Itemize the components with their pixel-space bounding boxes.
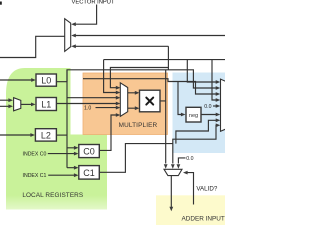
svg-text:1.0: 1.0 [84,106,91,112]
wire L1 output [56,103,116,105]
svg-text:INDEX C0: INDEX C0 [23,151,47,157]
arrows into mux2 (6 inputs) [116,86,121,90]
mux0 small multiplexer [14,98,21,111]
register L2 [35,129,56,141]
svg-text:INDEX C1: INDEX C1 [23,173,47,179]
mux4 bottom mux [164,169,182,175]
wire orange crossing y=78.7 to right mux and neg [83,79,218,115]
register L1 [36,98,56,111]
svg-text:L2: L2 [41,131,51,141]
arrow mux4 output down [169,207,173,212]
arrow into mux1 in2 [71,34,76,38]
wire 0.0 bottom hook [178,158,185,164]
arrowheads [8,22,220,211]
mux2 multiplier mux [120,83,127,117]
svg-text:MULTIPLIER: MULTIPLIER [119,122,158,129]
arrow into mux1 in1 [71,22,76,26]
svg-text:VECTOR INPUT: VECTOR INPUT [71,0,115,5]
wire input to L2 [0,134,31,136]
register L0 [36,74,56,86]
wire bus B to C0 C1 [67,148,76,168]
wire 1.0 into mux2 [96,107,117,109]
svg-text:VALID?: VALID? [196,185,217,192]
svg-text:L1: L1 [41,100,51,110]
arrows into C0 [74,146,79,150]
wire vector input drop [74,5,97,25]
register C1 [79,166,100,180]
svg-text:neg: neg [189,113,198,119]
wire long input line y=35.5 [74,35,226,37]
wire bus line y=59.6 [104,60,225,100]
arrows into multiplier [135,91,140,95]
wire mux0 to L1 [21,103,32,105]
wire 0.0 top arrow [213,105,218,107]
neg box [186,107,201,122]
svg-text:L0: L0 [41,76,51,86]
arrow into mux1 in3 [71,44,76,48]
svg-text:C0: C0 [83,147,95,157]
arrow into L1 [31,103,36,107]
svg-text:LOCAL REGISTERS: LOCAL REGISTERS [22,192,83,199]
svg-text:ADDER INPUT: ADDER INPUT [182,215,225,222]
wire C1 output to blue and bottom mux [99,125,218,172]
svg-text:0.0: 0.0 [186,156,193,162]
arrows into C1 [74,166,79,170]
arrow into L2 [30,133,35,137]
mux3 right edge mux [221,79,227,131]
wire neg output [201,114,218,116]
arrows into right mux (8 inputs) [216,80,221,84]
arrows into bottom mux [164,164,168,169]
wire mux4 output [170,176,172,208]
region MULTIPLIER (orange) [83,73,168,135]
wire C0 output riser to mux2 [99,115,116,150]
wire L2 output to bus B [56,134,67,136]
svg-text:C1: C1 [83,168,95,178]
wire mux1 output to left edge [0,36,65,57]
svg-text:0.0: 0.0 [204,104,211,110]
wire bus vertical [67,70,117,168]
wire INDEX C1 [48,174,75,176]
wire mux2 to multiplier [128,93,137,108]
multiplier unit [140,90,161,112]
corner mark top-left [0,2,2,5]
wire inputs to small mux0 [0,100,9,106]
region LOCAL REGISTERS (green) [6,68,107,210]
wire L0 output over-the-top [56,70,217,88]
wire staircase into right mux in7 [176,120,218,143]
mux1 top multiplexer [65,19,71,52]
arrows into mux0 [8,98,13,102]
wire multiplier output [160,70,166,164]
region ADDER INPUT (yellow) [156,195,225,225]
wire top mux third input from right riser [74,46,169,87]
wire INDEX C0 [48,153,76,155]
wire valid select [188,173,194,205]
wire input to L0 [0,79,32,81]
arrow valid select into mux4 [183,171,188,175]
region top-right (blue) [173,73,226,154]
arrow into neg [181,113,186,117]
register C0 [79,145,100,158]
arrow into L0 [31,78,36,82]
